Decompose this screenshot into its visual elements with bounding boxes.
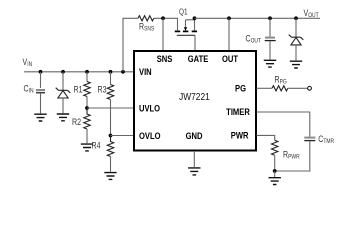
resistor R1 xyxy=(74,72,91,108)
node SNS tap xyxy=(161,16,165,20)
pin OVLO xyxy=(139,130,161,141)
node UVLO divider junction xyxy=(85,106,89,110)
node output zener tap xyxy=(294,16,298,20)
capacitor C1N xyxy=(24,72,46,114)
node RPWR/CTMR junction xyxy=(273,169,277,173)
ground below R4 xyxy=(104,173,116,180)
ground below GND pin xyxy=(188,168,200,175)
svg-text:OVLO: OVLO xyxy=(139,130,161,141)
op-amp U1 JW7221 body xyxy=(134,51,256,151)
svg-text:R1: R1 xyxy=(74,85,83,95)
wire Rsns to Q1 source xyxy=(154,18,178,30)
wire PWR pin xyxy=(257,135,275,140)
ground below RPWR xyxy=(269,171,281,185)
wire riser to Rsns xyxy=(123,18,138,72)
pin OUT xyxy=(222,53,239,64)
ground below R2 xyxy=(81,144,93,151)
pin TIMER xyxy=(226,106,250,117)
zener diode output clamp xyxy=(289,18,304,60)
svg-text:GND: GND xyxy=(186,130,203,141)
svg-text:GATE: GATE xyxy=(188,53,209,64)
wire TIMER pin xyxy=(257,112,310,137)
svg-text:OUT: OUT xyxy=(222,53,239,64)
wire OVLO xyxy=(111,135,135,137)
pin PWR xyxy=(231,130,249,141)
wire Vin input rail xyxy=(24,71,134,73)
resistor R4 xyxy=(92,136,114,172)
zener diode input clamp xyxy=(56,72,71,113)
svg-text:Q1: Q1 xyxy=(179,7,188,17)
capacitor CTMR xyxy=(275,134,334,171)
resistor R3 xyxy=(98,72,114,136)
label Vout terminal xyxy=(304,8,320,19)
wire SNS pin stub xyxy=(162,18,164,50)
wire GND pin stub xyxy=(193,151,195,167)
svg-text:SNS: SNS xyxy=(157,53,173,64)
ground below CIN xyxy=(34,114,46,121)
resistor RPWR xyxy=(272,140,300,171)
pin GND xyxy=(186,130,203,141)
svg-text:PWR: PWR xyxy=(231,130,249,141)
svg-text:UVLO: UVLO xyxy=(139,103,160,114)
pin VIN xyxy=(139,66,152,77)
transistor Q1 xyxy=(175,7,197,50)
wire output rail xyxy=(195,17,321,19)
ground below COUT xyxy=(264,60,276,67)
svg-text:VIN: VIN xyxy=(139,66,152,77)
svg-text:R3: R3 xyxy=(98,85,107,95)
node PG open terminal xyxy=(308,86,312,90)
svg-text:R4: R4 xyxy=(92,141,101,151)
pin UVLO xyxy=(139,103,160,114)
wire OUT pin stub xyxy=(228,18,230,50)
node Vin/R1 junction xyxy=(85,70,89,74)
svg-text:R2: R2 xyxy=(72,117,81,127)
node OUT pin tap xyxy=(227,16,231,20)
node Vin/CIN junction xyxy=(39,70,43,74)
node Vin/zener junction xyxy=(61,70,65,74)
node OVLO divider junction xyxy=(109,134,113,138)
resistor RPG xyxy=(272,75,288,91)
wire RPG to terminal xyxy=(288,87,308,89)
svg-text:TIMER: TIMER xyxy=(226,106,250,117)
resistor Rsns xyxy=(138,16,154,33)
svg-text:JW7221: JW7221 xyxy=(179,91,210,103)
pin PG xyxy=(235,83,246,94)
svg-text:PG: PG xyxy=(235,83,246,94)
resistor R2 xyxy=(72,108,90,143)
pin GATE xyxy=(188,53,209,64)
ground below output zener xyxy=(290,61,302,68)
wire PG pin xyxy=(257,87,273,89)
capacitor COUT xyxy=(246,18,276,59)
wire UVLO xyxy=(87,107,134,109)
node Vin/R3 junction xyxy=(109,70,113,74)
node Vin/Rsns junction xyxy=(121,70,125,74)
node COUT tap xyxy=(268,16,272,20)
pin SNS xyxy=(157,53,173,64)
node Q1 drain junction xyxy=(193,16,197,20)
label Vin terminal xyxy=(23,57,33,68)
ground below input zener xyxy=(57,114,69,121)
